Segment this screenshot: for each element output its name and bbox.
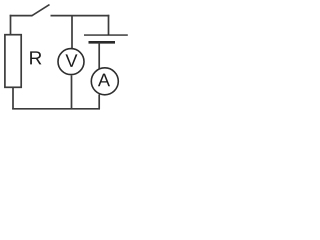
voltmeter U1 circle [58, 49, 84, 75]
label A [98, 74, 110, 87]
background [0, 0, 129, 114]
wire: voltmeter top lead [71, 16, 73, 49]
resistor R (rectangle) [5, 35, 21, 88]
wire: voltmeter bottom lead [71, 75, 73, 108]
switch S (open blade) [32, 5, 50, 16]
wire: ammeter bottom lead [98, 95, 100, 109]
wire: resistor bottom lead [12, 88, 14, 110]
wire: top horizontal, right segment from switch contact to top-right corner [51, 15, 110, 17]
label V [65, 54, 77, 67]
wire: bottom horizontal [12, 108, 100, 110]
label R [30, 51, 41, 64]
wire: battery top lead (right vertical) [108, 15, 110, 35]
wire: top-left vertical from top wire down to resistor top [10, 15, 12, 35]
battery cell: long thin positive plate [84, 34, 128, 36]
battery cell: short thick negative plate [89, 41, 116, 44]
ammeter U2 circle [91, 68, 118, 95]
wire: top horizontal, left segment to switch pivot [10, 15, 33, 17]
wire: battery bottom lead down to ammeter [98, 42, 100, 68]
